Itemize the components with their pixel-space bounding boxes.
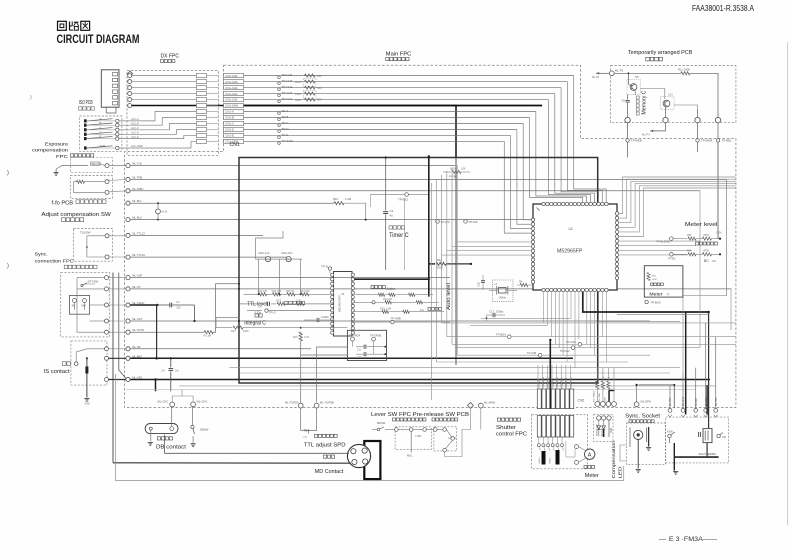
sync connection FPC dashed box	[61, 273, 110, 337]
MD contact label	[315, 455, 344, 475]
svg-text:Memory C: Memory C	[642, 90, 648, 114]
svg-text:ML-TSPDA: ML-TSPDA	[285, 400, 299, 404]
svg-text:VR55: VR55	[703, 250, 710, 253]
TTL level label	[247, 301, 305, 307]
svg-text:Compensation: Compensation	[611, 440, 616, 479]
meter bottom galvanometer	[575, 445, 600, 479]
f-fo PCB label	[52, 200, 106, 207]
margin mark 2	[30, 95, 31, 100]
svg-text:B: B	[100, 121, 102, 125]
resistor R11 100K	[678, 68, 690, 75]
svg-text:F-FB: F-FB	[449, 175, 456, 179]
svg-text:ALC-C: ALC-C	[131, 126, 139, 130]
svg-text:E: E	[100, 135, 102, 139]
capacitor C16	[477, 275, 486, 290]
doc number FAA38001-R.3538.A	[692, 4, 755, 13]
ML-CKC contact	[158, 399, 175, 407]
margin mark 1	[7, 170, 9, 176]
Main FPC label	[386, 52, 412, 61]
svg-text:TP-B: TP-B	[282, 115, 289, 119]
svg-text:10K: 10K	[712, 260, 717, 263]
svg-text:IS contact: IS contact	[44, 369, 71, 375]
DX FPC terminal label boxes	[196, 74, 218, 144]
svg-text:500: 500	[317, 86, 322, 90]
svg-text:TP-CA2: TP-CA2	[560, 349, 570, 353]
svg-text:F: F	[668, 293, 670, 297]
svg-text:2MHz: 2MHz	[499, 296, 506, 300]
svg-text:CN1-CH2: CN1-CH2	[225, 98, 238, 102]
DB contact wires	[151, 407, 172, 442]
svg-text:ML-TTLC0: ML-TTLC0	[132, 253, 145, 257]
svg-text:C11: C11	[357, 348, 362, 351]
svg-text:A: A	[588, 453, 592, 459]
svg-text:Auto t: Auto t	[387, 287, 396, 291]
svg-text:TP-SRB: TP-SRB	[391, 317, 401, 321]
svg-text:CN1-A: CN1-A	[225, 110, 234, 114]
Meter level label	[685, 222, 718, 245]
svg-text:FAA38001-R.3538.A: FAA38001-R.3538.A	[692, 4, 755, 13]
svg-text:ML-MG: ML-MG	[696, 398, 698, 406]
Shutter control FPC label	[496, 418, 527, 438]
svg-text:ML-P3: ML-P3	[642, 133, 650, 137]
meter F box	[644, 266, 683, 297]
svg-text:CN1-CH4: CN1-CH4	[225, 86, 238, 90]
svg-text:ALC-SAW: ALC-SAW	[131, 144, 143, 148]
sheet label E3-FM3A	[659, 536, 718, 543]
ML-CKG contact	[191, 399, 208, 407]
svg-text:500: 500	[177, 307, 182, 310]
U2 bottom pin wires	[544, 292, 607, 368]
Lever SW dashed box	[395, 427, 431, 450]
svg-text:CN1-C: CN1-C	[225, 122, 234, 126]
MSL plunger	[407, 431, 413, 457]
mid vertical bus	[431, 165, 457, 400]
ML-MSW diamond	[468, 403, 474, 409]
svg-text:ML-BL0: ML-BL0	[132, 216, 142, 220]
ground at exposure comp	[54, 166, 89, 176]
ML-DPH contact	[634, 384, 651, 407]
svg-text:R1 1M: R1 1M	[204, 335, 211, 338]
svg-text:ML-CKG: ML-CKG	[197, 399, 208, 403]
left FPC connector circles	[126, 162, 146, 382]
KSW switch	[667, 431, 675, 444]
svg-text:U1: U1	[341, 292, 345, 296]
TP-BUS test point	[645, 300, 661, 304]
capacitor C5 electrolytic	[85, 357, 88, 397]
svg-text:C: C	[100, 126, 102, 130]
Sync socket dashed box	[626, 423, 665, 465]
svg-text:M52965FP: M52965FP	[557, 249, 583, 255]
TP-B52 test point	[370, 193, 429, 270]
svg-text:ML-TTLC2: ML-TTLC2	[132, 231, 145, 235]
wire CKC top	[172, 390, 193, 403]
svg-text:U2: U2	[569, 227, 573, 231]
svg-text:MSL: MSL	[407, 454, 413, 458]
CM switch	[717, 433, 726, 440]
DB ground	[148, 443, 153, 446]
Temporarily arranged PCB dashed box	[611, 66, 736, 123]
svg-text:— E 3 ·FM3A——: — E 3 ·FM3A——	[659, 536, 718, 543]
svg-text:Meter: Meter	[649, 292, 663, 297]
svg-text:MG: MG	[82, 304, 87, 308]
svg-text:GND: GND	[605, 397, 607, 402]
svg-text:TP-CH4: TP-CH4	[282, 85, 293, 89]
svg-text:CN1-SAW: CN1-SAW	[225, 104, 238, 108]
XE MG relay box	[70, 295, 90, 314]
CN2 hatched bars upper	[537, 389, 584, 409]
svg-text:TP-MLEVEL: TP-MLEVEL	[656, 240, 671, 244]
thick right verticals	[639, 312, 708, 415]
svg-text:Shutter: Shutter	[496, 425, 516, 431]
Pre-release dashed box	[434, 427, 457, 451]
svg-text:ML-DPH: ML-DPH	[641, 400, 651, 404]
ISO PCB connector J1	[101, 70, 119, 113]
svg-text:CM: CM	[722, 436, 726, 439]
svg-text:C4: C4	[161, 369, 165, 373]
resistor VR24 F-FB	[443, 168, 470, 179]
svg-text:Sync. Socket: Sync. Socket	[625, 414, 661, 420]
U2 top pins	[542, 202, 608, 205]
TP-MEM terminal wires	[626, 123, 732, 239]
svg-text:VR24: VR24	[450, 168, 457, 171]
svg-text:C4: C4	[258, 304, 262, 308]
shutter magnet	[699, 429, 717, 456]
svg-text:R23 10K: R23 10K	[300, 290, 310, 293]
svg-text:ML-BL1: ML-BL1	[132, 199, 142, 203]
DBSW ground	[191, 444, 196, 447]
svg-text:ML-CKC: ML-CKC	[158, 399, 169, 403]
svg-text:LED: LED	[618, 466, 623, 479]
wire rows right side upper	[619, 180, 731, 374]
CN1 connector label boxes	[224, 74, 244, 144]
svg-text:R52: R52	[687, 234, 692, 237]
svg-text:(?): (?)	[304, 435, 307, 439]
svg-text:AL-B: AL-B	[162, 210, 168, 214]
Compensation LED block	[593, 415, 613, 442]
lever SW contacts	[385, 428, 457, 452]
IS contact pin	[74, 349, 104, 366]
svg-text:M51963AFP: M51963AFP	[338, 295, 342, 312]
BAT thick stub down	[154, 378, 157, 391]
svg-text:ML-TRA: ML-TRA	[715, 397, 718, 406]
svg-text:ML-CNT: ML-CNT	[132, 317, 143, 321]
svg-text:TP-E: TP-E	[282, 133, 289, 137]
capacitor C6	[622, 95, 630, 118]
f-fo PCB dashed box	[70, 176, 112, 199]
svg-text:R11 100K: R11 100K	[678, 68, 690, 72]
svg-text:R18: R18	[293, 336, 298, 339]
svg-text:TR7: TR7	[635, 76, 640, 79]
svg-text:LSW: LSW	[416, 434, 422, 438]
svg-text:FPC: FPC	[56, 154, 69, 160]
svg-text:DB contact: DB contact	[156, 445, 187, 451]
svg-text:TP-I52: TP-I52	[469, 220, 478, 224]
svg-text:TP-BC: TP-BC	[668, 257, 676, 261]
svg-text:VR57: VR57	[652, 279, 658, 281]
svg-text:ML-TR: ML-TR	[132, 285, 140, 289]
MD contact circle	[347, 444, 370, 467]
capacitor C4 on BAT drop	[161, 357, 179, 391]
XSTO row resistor and riser	[204, 283, 241, 338]
svg-text:ML-TRB: ML-TRB	[132, 176, 142, 180]
DBSW switch	[191, 407, 209, 443]
svg-text:ML-TRBx: ML-TRBx	[132, 187, 144, 191]
lower horizontal fan wires	[437, 323, 737, 362]
Sync connection FPC label	[35, 252, 97, 269]
svg-text:R17: R17	[231, 330, 236, 333]
svg-text:VR53: VR53	[703, 234, 710, 237]
STYSW switch	[81, 279, 98, 286]
DX contact circles	[128, 74, 132, 108]
svg-text:CN1-D: CN1-D	[225, 128, 234, 132]
title kanji 回路図	[58, 21, 90, 30]
svg-text:TP-CH2: TP-CH2	[282, 97, 293, 101]
TP test points left of U2	[436, 220, 478, 224]
svg-text:Meter level: Meter level	[685, 222, 718, 228]
DX sensor diamond	[127, 71, 132, 76]
svg-text:STYSW: STYSW	[88, 279, 99, 283]
U2 left pin feed wires	[442, 242, 533, 255]
svg-text:DX FPC: DX FPC	[161, 54, 180, 60]
f-fo PCB contact circles	[95, 180, 126, 195]
svg-text:0.022u: 0.022u	[321, 315, 329, 319]
CN2 hatched bars lower	[537, 416, 573, 438]
Lever SW FPC Pre-release SW PCB label	[371, 412, 470, 421]
exposure comp dashed box	[70, 158, 112, 173]
svg-text:f-f1: f-f1	[420, 308, 424, 312]
sync socket left wire	[620, 445, 626, 461]
svg-text:Integral C: Integral C	[244, 321, 266, 327]
resistor R10 1.2M	[333, 197, 367, 220]
shutter FPC contacts	[537, 438, 575, 465]
svg-text:ALC-E: ALC-E	[131, 135, 139, 139]
svg-text:2.2M: 2.2M	[716, 232, 721, 235]
auto level resistor rows	[354, 286, 450, 324]
wire DB to MD top	[165, 435, 349, 454]
svg-text:READY LED: READY LED	[596, 424, 599, 436]
svg-text:TP-I2: TP-I2	[269, 310, 276, 314]
svg-text:TP-C: TP-C	[282, 121, 290, 125]
svg-text:CN2: CN2	[578, 399, 585, 403]
thick shutter wires	[673, 443, 719, 475]
svg-text:GND: GND	[84, 402, 90, 406]
svg-text:Adjust compensation SW: Adjust compensation SW	[41, 212, 111, 218]
svg-text:ML-TSPDB: ML-TSPDB	[320, 400, 334, 404]
TTL level resistor row	[244, 290, 331, 296]
svg-text:TP-MEL: TP-MEL	[722, 139, 733, 143]
svg-text:TP-CH0: TP-CH0	[566, 340, 576, 344]
svg-text:TSLSW: TSLSW	[80, 230, 91, 234]
svg-text:TTL adjust SPD: TTL adjust SPD	[304, 443, 346, 449]
svg-text:ML-TRB1: ML-TRB1	[599, 392, 601, 402]
exposure comp contact circle	[105, 164, 126, 168]
svg-text:1000p: 1000p	[496, 310, 504, 314]
CN2 label boxes	[537, 365, 573, 389]
svg-text:4.7K: 4.7K	[304, 335, 310, 339]
svg-text:KSW: KSW	[667, 431, 673, 434]
svg-text:A: A	[100, 117, 102, 121]
Exposure compensation FPC label	[32, 142, 94, 161]
transistor on BL1 line	[156, 202, 168, 220]
svg-text:compensation: compensation	[32, 148, 68, 154]
svg-text:GND: GND	[611, 428, 613, 433]
DX FPC label	[161, 54, 180, 63]
microcontroller U2 M52965FP	[533, 204, 617, 290]
svg-text:TP-A: TP-A	[282, 109, 289, 113]
IS contact dashed box	[71, 341, 107, 385]
IS circles	[105, 347, 126, 382]
long wire to MD 1	[113, 462, 351, 464]
DB contact stadium	[145, 424, 178, 434]
wires TP-SPD to ML-TSPD	[301, 347, 348, 402]
svg-text:C16: C16	[477, 282, 481, 287]
svg-text:ALC-D: ALC-D	[131, 131, 139, 135]
wire R11 to Q-right	[690, 73, 718, 117]
right vertical bundle	[668, 323, 718, 417]
svg-text:Temporarily arranged PCB: Temporarily arranged PCB	[628, 50, 693, 56]
svg-text:MG1a: MG1a	[549, 457, 551, 464]
svg-text:2.2K: 2.2K	[296, 299, 301, 302]
capacitor C15 0.022u	[304, 315, 334, 322]
svg-text:ALC-B: ALC-B	[131, 121, 139, 125]
long horizontal wires mid	[126, 368, 716, 390]
transistor Q2 memory	[641, 89, 675, 110]
svg-text:AE LED: AE LED	[600, 428, 603, 436]
svg-text:ISO PCB: ISO PCB	[79, 100, 93, 106]
U2 right pins	[615, 212, 618, 280]
TRB vertical wires with resistors	[593, 368, 617, 406]
svg-text:MDSW: MDSW	[377, 421, 386, 425]
svg-text:BC: BC	[704, 259, 709, 263]
svg-text:100K: 100K	[437, 266, 443, 270]
ALC staircase wires	[119, 112, 196, 149]
Auto level vertical label	[446, 283, 452, 310]
svg-text:SAW: SAW	[295, 98, 301, 102]
crystal oscillator X1	[489, 280, 517, 301]
svg-text:CIRCUIT DIAGRAM: CIRCUIT DIAGRAM	[57, 34, 140, 46]
XSHD thick wire with capacitor	[130, 301, 195, 322]
svg-text:connection FPC: connection FPC	[35, 259, 75, 265]
sync FPC contact circles	[77, 276, 126, 335]
svg-text:TP-D: TP-D	[282, 127, 290, 131]
CN1 series resistors	[295, 74, 322, 102]
meter level row 2	[668, 250, 721, 263]
svg-text:TD4: TD4	[304, 429, 310, 433]
TTL adjust SPD label	[304, 434, 346, 448]
DB contact label	[156, 437, 187, 451]
svg-text:R12 1M: R12 1M	[383, 298, 392, 301]
ISO contact switch block	[80, 116, 122, 151]
svg-text:ML2-1-D: ML2-1-D	[259, 251, 270, 255]
compensation LED diodes	[596, 391, 615, 438]
Sync Socket label	[625, 414, 661, 423]
svg-text:TP-A/M: TP-A/M	[527, 351, 537, 355]
bus wires CN1 to IC U2	[504, 76, 606, 233]
ML-MSW contact	[478, 401, 495, 409]
svg-text:TP-SPDA: TP-SPDA	[349, 333, 361, 337]
svg-text:uMGa: uMGa	[539, 457, 541, 464]
U2 right side wires	[619, 177, 736, 255]
integral C label	[244, 314, 266, 327]
op-amp IC U1	[334, 272, 353, 337]
svg-text:TP-BGA: TP-BGA	[496, 333, 506, 337]
Main FPC dashed border	[125, 65, 736, 407]
svg-text:TP-CH3: TP-CH3	[282, 91, 293, 95]
DX wires to CN1	[132, 76, 197, 100]
left vertical pair wires	[113, 273, 126, 463]
svg-text:15K: 15K	[461, 168, 466, 171]
svg-text:Exposure: Exposure	[45, 142, 68, 148]
capacitor C17 1000p	[481, 310, 571, 322]
svg-text:TP-CH5: TP-CH5	[282, 79, 293, 83]
margin mark 3	[7, 263, 9, 269]
svg-text:100K: 100K	[243, 330, 249, 333]
thick SAW vertical continuation	[455, 158, 457, 366]
junction dots on big rect edge	[238, 288, 240, 322]
capacitor C4 and integral row	[240, 299, 331, 308]
svg-text:Timer C: Timer C	[389, 233, 409, 239]
svg-text:100: 100	[317, 74, 322, 78]
TP-I1 test point	[321, 265, 332, 274]
U1 pin circles	[331, 273, 355, 334]
svg-text:ALC-A: ALC-A	[131, 117, 139, 121]
temp PCB top rail	[614, 72, 681, 74]
svg-text:D: D	[100, 130, 102, 134]
thick CN2 wire	[549, 339, 551, 409]
svg-text:TP-MEM: TP-MEM	[631, 139, 643, 143]
TSPD wires down	[301, 408, 317, 434]
svg-text:SBCOM: SBCOM	[91, 163, 100, 166]
svg-text:ML-MSW: ML-MSW	[484, 401, 496, 405]
temp PCB bottom terminals	[625, 105, 721, 123]
SBCOM label box	[91, 162, 106, 166]
title CIRCUIT DIAGRAM	[57, 34, 140, 46]
svg-text:DBSW: DBSW	[200, 428, 209, 432]
diode block vertical drops	[259, 259, 301, 294]
svg-text:ML-TxD: ML-TxD	[132, 162, 142, 166]
svg-text:R19 1.2M: R19 1.2M	[380, 307, 391, 310]
CN1 test point circles and wires	[244, 73, 574, 144]
timer capacitor C3	[383, 156, 393, 270]
svg-text:CN1-B: CN1-B	[225, 116, 234, 120]
U2 bottom pins	[542, 288, 608, 291]
ML-TSPDA contact	[285, 400, 303, 408]
svg-text:ML-P1: ML-P1	[615, 69, 624, 73]
diodes ML2-1-D ML2-0-D	[256, 231, 303, 262]
svg-text:C6: C6	[622, 99, 626, 103]
svg-text:Lever SW FPC Pre-release SW P: Lever SW FPC Pre-release SW PCB	[371, 412, 470, 418]
ML-TSPDB contact	[314, 400, 334, 408]
svg-text:ML-CHG: ML-CHG	[683, 397, 685, 406]
Adjust compensation SW label	[41, 212, 111, 221]
svg-text:C23: C23	[668, 94, 673, 97]
transistor Q1 memory	[627, 73, 641, 95]
sync socket grounds	[636, 427, 652, 472]
ISO PCB label	[79, 100, 95, 110]
TSLSW contacts	[86, 234, 126, 259]
svg-text:ML-CSP: ML-CSP	[132, 274, 142, 278]
integral C row2	[247, 309, 331, 315]
svg-text:ML-P0: ML-P0	[592, 76, 600, 79]
svg-text:VR1 200: VR1 200	[272, 290, 282, 293]
lever SW right wire	[445, 408, 481, 457]
svg-text:CN1-CH3: CN1-CH3	[225, 92, 238, 96]
svg-text:TP-MEM: TP-MEM	[701, 139, 713, 143]
IS contact label	[44, 362, 71, 375]
svg-text:TP-B52: TP-B52	[398, 198, 408, 202]
Timer C label	[389, 226, 409, 239]
svg-text:CN1-E: CN1-E	[225, 134, 234, 138]
